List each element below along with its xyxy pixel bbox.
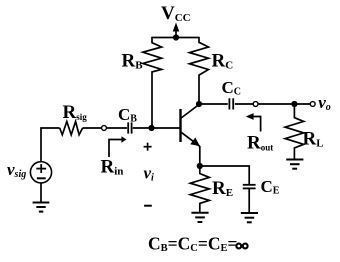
resistor RC [190, 37, 209, 104]
transistor Q1 collector lead [181, 105, 200, 119]
wire: CC to output terminal [235, 103, 253, 105]
vi minus sign [144, 205, 152, 207]
wire: collector node to CC [199, 103, 228, 105]
resistor RL [285, 104, 304, 159]
terminal: vo open circle [310, 102, 315, 107]
ground below vsig [33, 203, 50, 212]
capacitor CB [128, 122, 131, 133]
source vsig [30, 162, 51, 183]
terminal: output open circle [253, 102, 258, 107]
node: base junction dot [148, 125, 154, 131]
wire: output terminal to vo node [258, 103, 294, 105]
node: emitter junction dot [197, 163, 203, 169]
wire: emitter node to CE [200, 166, 249, 184]
terminal: input open circle [102, 126, 107, 131]
vi plus sign [144, 143, 152, 151]
Rin arrow [109, 136, 127, 157]
infinity symbol [236, 244, 247, 249]
ground below RE [191, 213, 208, 222]
transistor Q1 base bar [179, 109, 181, 142]
wire: base wire left of CB [107, 127, 127, 129]
capacitor CE [243, 185, 256, 189]
ground below CE [241, 213, 258, 222]
node: vo junction dot [291, 101, 297, 107]
node: Vcc junction dot [173, 34, 179, 40]
Vcc arrow [173, 23, 180, 38]
resistor RB [143, 37, 162, 128]
node: collector junction dot [196, 101, 202, 107]
Rout arrow [246, 113, 261, 131]
resistor RE [190, 166, 209, 212]
ground below RL [286, 160, 303, 169]
wire: CE to ground [248, 189, 250, 212]
capacitor CC [229, 98, 233, 109]
wire: vsig top to Rsig [41, 128, 60, 162]
wire: base wire right of CB [133, 127, 181, 129]
wire: vsig to ground [40, 183, 42, 202]
transistor Q1 emitter lead with arrow [181, 132, 201, 166]
wire: Rsig to input terminal [83, 127, 102, 129]
wire: top supply rail [152, 37, 199, 39]
wire: vo node to vo terminal [294, 103, 310, 105]
resistor Rsig [60, 122, 83, 135]
